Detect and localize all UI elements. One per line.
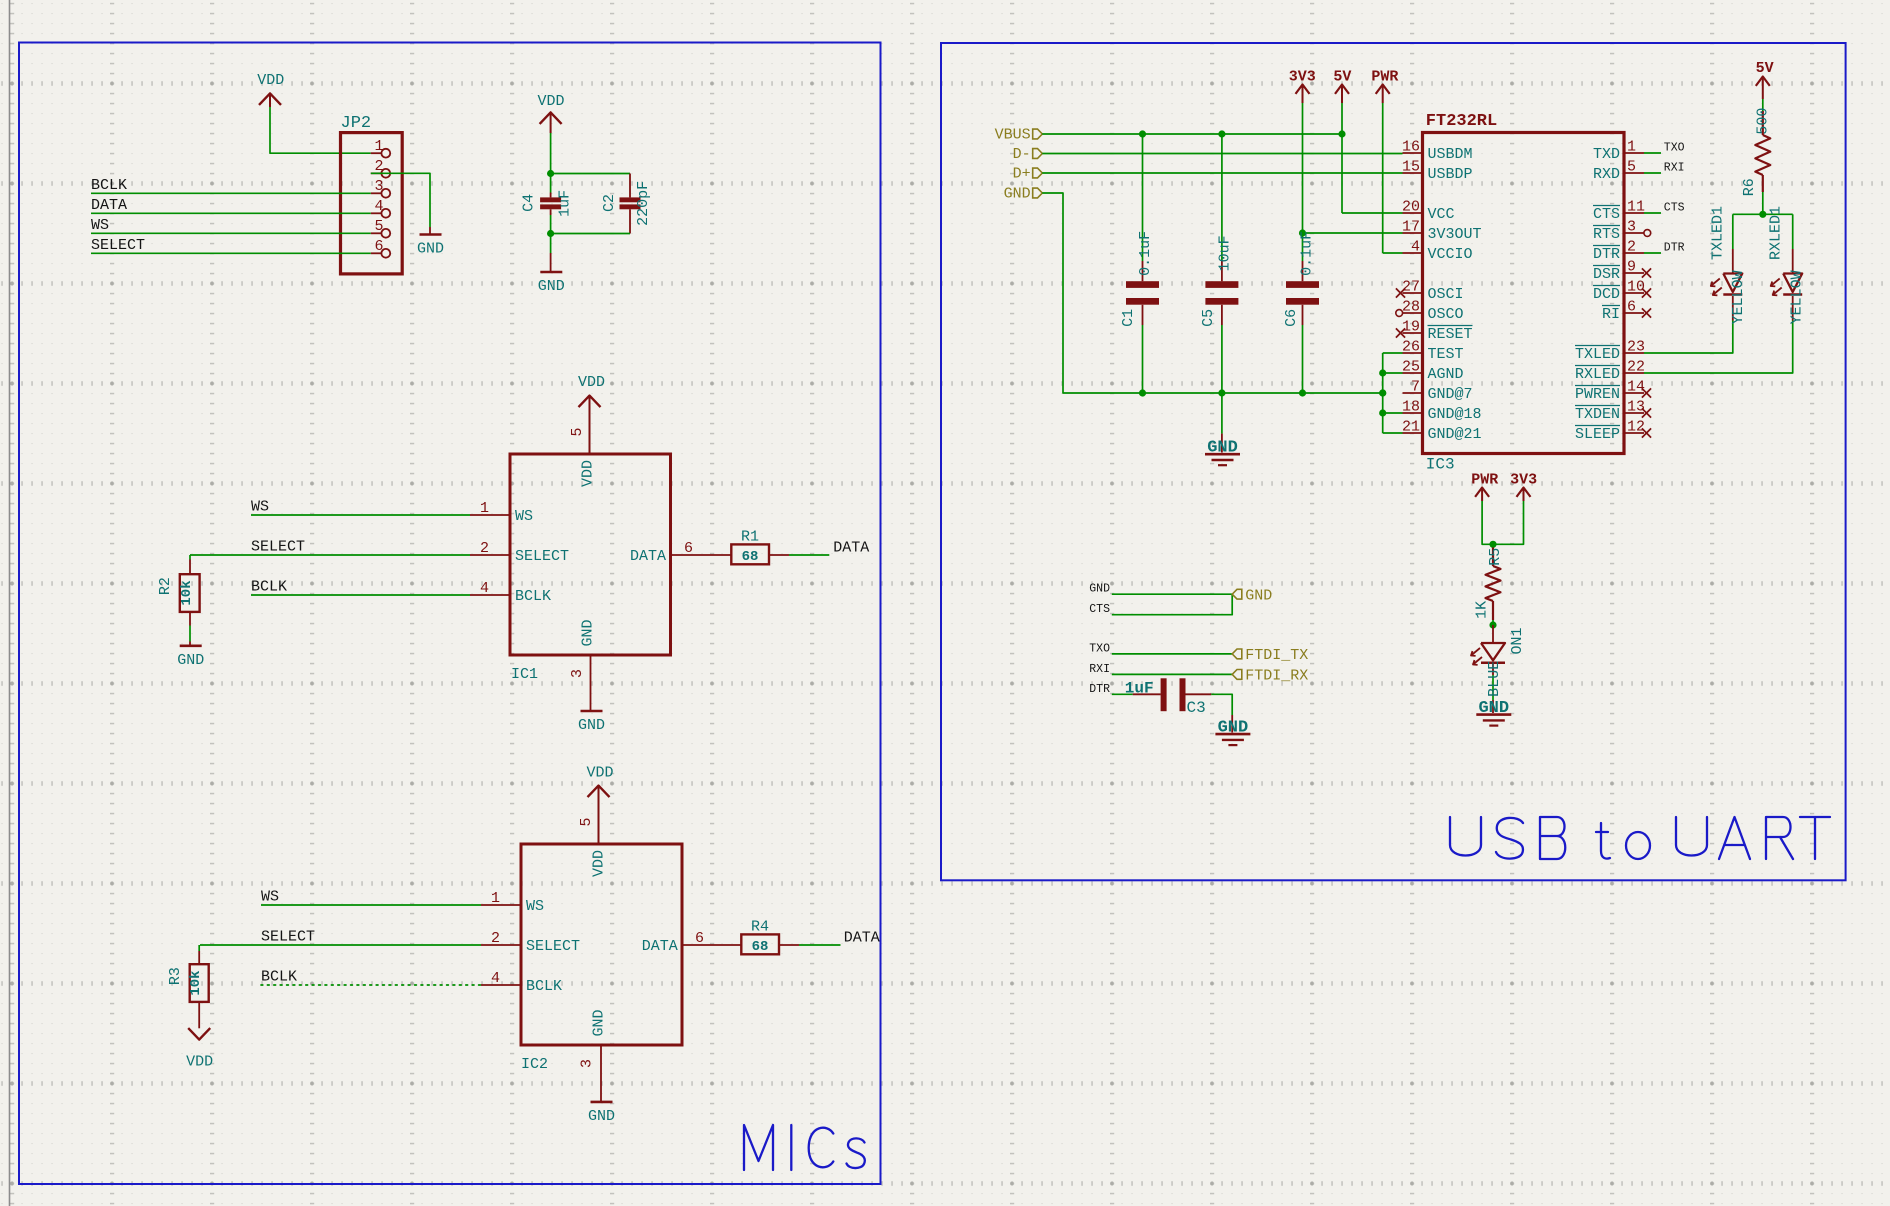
svg-text:13: 13 <box>1627 399 1645 416</box>
svg-text:TXLED: TXLED <box>1575 346 1620 363</box>
svg-text:DATA: DATA <box>630 548 666 565</box>
svg-text:WS: WS <box>261 889 279 906</box>
svg-text:RTS: RTS <box>1593 226 1620 243</box>
svg-text:BCLK: BCLK <box>526 978 562 995</box>
svg-text:2: 2 <box>480 540 489 557</box>
svg-text:OSCI: OSCI <box>1428 286 1464 303</box>
svg-text:VCC: VCC <box>1428 206 1455 223</box>
svg-text:TXO: TXO <box>1089 642 1110 655</box>
svg-text:14: 14 <box>1627 379 1645 396</box>
svg-text:RESET: RESET <box>1428 326 1473 343</box>
svg-text:3: 3 <box>569 669 586 678</box>
svg-text:D+: D+ <box>1013 166 1031 183</box>
svg-text:R2: R2 <box>157 577 174 595</box>
svg-text:C3: C3 <box>1187 699 1206 717</box>
svg-text:WS: WS <box>515 508 533 525</box>
svg-text:C1: C1 <box>1120 309 1137 327</box>
svg-text:VCCIO: VCCIO <box>1428 246 1473 263</box>
svg-text:JP2: JP2 <box>341 114 372 133</box>
svg-text:WS: WS <box>526 898 544 915</box>
svg-text:23: 23 <box>1627 339 1645 356</box>
svg-text:RXD: RXD <box>1593 166 1620 183</box>
svg-text:TXLED1: TXLED1 <box>1709 206 1726 260</box>
svg-text:4: 4 <box>374 198 383 215</box>
svg-text:USBDP: USBDP <box>1428 166 1473 183</box>
svg-text:GND: GND <box>580 619 597 646</box>
svg-text:500: 500 <box>1754 108 1771 135</box>
svg-text:SELECT: SELECT <box>515 548 569 565</box>
svg-text:0.1uF: 0.1uF <box>1137 231 1154 276</box>
svg-text:SELECT: SELECT <box>251 539 305 556</box>
svg-text:VBUS: VBUS <box>995 127 1031 144</box>
svg-text:FTDI_TX: FTDI_TX <box>1245 647 1308 664</box>
svg-text:DATA: DATA <box>844 930 880 947</box>
svg-text:6: 6 <box>374 238 383 255</box>
svg-text:BCLK: BCLK <box>515 588 551 605</box>
svg-text:17: 17 <box>1402 219 1420 236</box>
svg-text:GND: GND <box>417 241 444 258</box>
svg-text:WS: WS <box>251 499 269 516</box>
svg-text:WS: WS <box>91 217 109 234</box>
svg-text:YELLOW: YELLOW <box>1788 270 1805 324</box>
svg-text:RXI: RXI <box>1089 663 1110 676</box>
svg-text:5: 5 <box>1627 159 1636 176</box>
svg-text:GND: GND <box>1004 186 1031 203</box>
svg-text:15: 15 <box>1402 159 1420 176</box>
svg-text:3V3: 3V3 <box>1289 69 1316 86</box>
svg-text:ON1: ON1 <box>1509 627 1526 654</box>
svg-text:11: 11 <box>1627 199 1645 216</box>
svg-text:4: 4 <box>1411 239 1420 256</box>
svg-text:GND: GND <box>538 278 565 295</box>
svg-text:RXI: RXI <box>1664 162 1685 175</box>
svg-text:BCLK: BCLK <box>251 579 287 596</box>
svg-text:R5: R5 <box>1487 548 1504 566</box>
svg-text:BCLK: BCLK <box>261 969 297 986</box>
svg-text:VDD: VDD <box>591 850 608 877</box>
svg-text:10k: 10k <box>188 970 204 995</box>
svg-text:FT232RL: FT232RL <box>1426 112 1497 131</box>
svg-text:26: 26 <box>1402 339 1420 356</box>
svg-text:IC3: IC3 <box>1426 455 1455 473</box>
svg-text:GND: GND <box>1245 588 1272 605</box>
svg-text:1uF: 1uF <box>1125 679 1154 697</box>
svg-text:GND: GND <box>1089 583 1110 596</box>
svg-text:DTR: DTR <box>1664 242 1685 255</box>
svg-text:GND@21: GND@21 <box>1428 426 1482 443</box>
svg-text:1uF: 1uF <box>557 190 574 217</box>
svg-text:DATA: DATA <box>833 540 869 557</box>
svg-text:VDD: VDD <box>578 374 605 391</box>
svg-text:USBDM: USBDM <box>1428 146 1473 163</box>
svg-text:VDD: VDD <box>580 460 597 487</box>
svg-text:OSCO: OSCO <box>1428 306 1464 323</box>
svg-text:4: 4 <box>480 580 489 597</box>
svg-text:10k: 10k <box>179 580 195 605</box>
svg-text:DATA: DATA <box>91 197 127 214</box>
svg-text:21: 21 <box>1402 419 1420 436</box>
svg-text:5V: 5V <box>1756 60 1774 77</box>
svg-text:DTR: DTR <box>1089 683 1110 696</box>
svg-text:5: 5 <box>569 427 586 436</box>
svg-text:R1: R1 <box>741 529 759 546</box>
svg-text:PWR: PWR <box>1471 471 1498 488</box>
svg-text:R6: R6 <box>1741 178 1758 196</box>
svg-text:SELECT: SELECT <box>261 929 315 946</box>
svg-text:12: 12 <box>1627 419 1645 436</box>
svg-text:RXLED1: RXLED1 <box>1768 206 1785 260</box>
svg-text:TXO: TXO <box>1664 142 1685 155</box>
svg-text:D-: D- <box>1013 146 1031 163</box>
svg-text:IC1: IC1 <box>511 666 538 683</box>
svg-text:GND@18: GND@18 <box>1428 406 1482 423</box>
svg-text:3: 3 <box>374 178 383 195</box>
svg-text:0.1uF: 0.1uF <box>1299 231 1316 276</box>
svg-text:5V: 5V <box>1333 69 1351 86</box>
svg-text:28: 28 <box>1402 299 1420 316</box>
svg-text:BLUE: BLUE <box>1486 661 1503 697</box>
svg-text:RI: RI <box>1602 306 1620 323</box>
svg-text:19: 19 <box>1402 319 1420 336</box>
svg-text:C5: C5 <box>1200 309 1217 327</box>
svg-text:CTS: CTS <box>1664 202 1685 215</box>
svg-text:1: 1 <box>374 138 383 155</box>
svg-text:DCD: DCD <box>1593 286 1620 303</box>
svg-text:C6: C6 <box>1283 309 1300 327</box>
svg-text:2: 2 <box>491 930 500 947</box>
svg-text:DATA: DATA <box>642 938 678 955</box>
svg-text:VDD: VDD <box>537 93 564 110</box>
svg-text:1K: 1K <box>1473 601 1490 619</box>
svg-text:9: 9 <box>1627 259 1636 276</box>
svg-text:6: 6 <box>1627 299 1636 316</box>
svg-text:SELECT: SELECT <box>91 237 145 254</box>
svg-text:27: 27 <box>1402 279 1420 296</box>
svg-text:CTS: CTS <box>1593 206 1620 223</box>
svg-text:DTR: DTR <box>1593 246 1620 263</box>
svg-text:10uF: 10uF <box>1217 235 1234 271</box>
svg-text:GND@7: GND@7 <box>1428 386 1473 403</box>
svg-text:2: 2 <box>1627 239 1636 256</box>
svg-text:16: 16 <box>1402 139 1420 156</box>
svg-text:68: 68 <box>752 939 769 955</box>
svg-text:FTDI_RX: FTDI_RX <box>1245 668 1308 685</box>
svg-text:220pF: 220pF <box>635 181 652 226</box>
svg-text:5: 5 <box>578 817 595 826</box>
svg-text:PWREN: PWREN <box>1575 386 1620 403</box>
svg-text:3: 3 <box>1627 219 1636 236</box>
svg-text:IC2: IC2 <box>521 1056 548 1073</box>
svg-text:SLEEP: SLEEP <box>1575 426 1620 443</box>
svg-text:10: 10 <box>1627 279 1645 296</box>
svg-text:3V3OUT: 3V3OUT <box>1428 226 1482 243</box>
svg-text:AGND: AGND <box>1428 366 1464 383</box>
svg-text:C2: C2 <box>601 194 618 212</box>
svg-text:RXLED: RXLED <box>1575 366 1620 383</box>
svg-text:CTS: CTS <box>1089 603 1110 616</box>
svg-text:VDD: VDD <box>186 1053 213 1070</box>
svg-text:4: 4 <box>491 970 500 987</box>
svg-text:R3: R3 <box>167 967 184 985</box>
svg-text:BCLK: BCLK <box>91 177 127 194</box>
svg-text:68: 68 <box>742 549 759 565</box>
svg-text:1: 1 <box>480 500 489 517</box>
svg-text:R4: R4 <box>751 919 769 936</box>
svg-text:1: 1 <box>1627 139 1636 156</box>
svg-text:3: 3 <box>579 1059 596 1068</box>
svg-text:GND: GND <box>591 1009 608 1036</box>
svg-text:VDD: VDD <box>257 72 284 89</box>
svg-text:YELLOW: YELLOW <box>1730 270 1747 324</box>
svg-text:PWR: PWR <box>1371 69 1398 86</box>
svg-text:20: 20 <box>1402 199 1420 216</box>
svg-text:VDD: VDD <box>586 765 613 782</box>
svg-text:GND: GND <box>578 717 605 734</box>
svg-text:22: 22 <box>1627 359 1645 376</box>
svg-text:GND: GND <box>588 1108 615 1125</box>
svg-text:SELECT: SELECT <box>526 938 580 955</box>
svg-text:GND: GND <box>177 652 204 669</box>
svg-text:7: 7 <box>1411 379 1420 396</box>
svg-text:DSR: DSR <box>1593 266 1620 283</box>
svg-text:5: 5 <box>374 218 383 235</box>
svg-text:C4: C4 <box>520 194 537 212</box>
svg-text:1: 1 <box>491 890 500 907</box>
svg-text:25: 25 <box>1402 359 1420 376</box>
svg-text:TXDEN: TXDEN <box>1575 406 1620 423</box>
svg-text:TEST: TEST <box>1428 346 1464 363</box>
svg-text:3V3: 3V3 <box>1510 471 1537 488</box>
svg-text:TXD: TXD <box>1593 146 1620 163</box>
svg-text:18: 18 <box>1402 399 1420 416</box>
